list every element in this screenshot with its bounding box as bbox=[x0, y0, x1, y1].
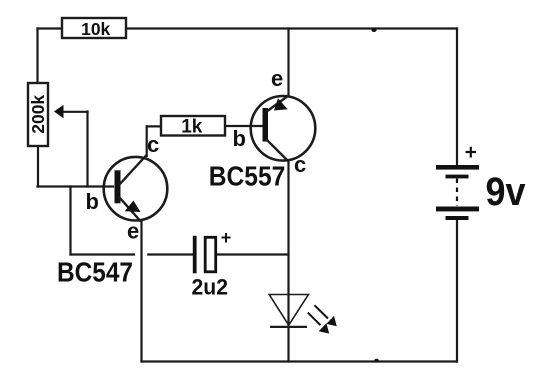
emitter arrow Q2 bbox=[274, 98, 288, 110]
dashed cell separator bbox=[456, 179, 458, 207]
resistor 1k bbox=[161, 116, 225, 137]
battery B1 9v bbox=[436, 147, 526, 220]
LED D1 bbox=[269, 295, 337, 334]
cell 1 long plate bbox=[436, 165, 479, 170]
emitter stroke Q1 bbox=[119, 197, 141, 222]
transistor Q1 BC547 bbox=[104, 155, 168, 222]
LED anode triangle bbox=[269, 295, 308, 326]
cell 2 long plate bbox=[436, 207, 479, 212]
wiper arrow bbox=[54, 105, 64, 118]
emitter arrow Q1 bbox=[125, 201, 141, 213]
svg-text:2u2: 2u2 bbox=[192, 275, 229, 300]
wire pot wiper drop bbox=[86, 112, 88, 187]
svg-text:e: e bbox=[271, 66, 283, 91]
negative plate bbox=[193, 236, 197, 273]
potentiometer 200k bbox=[28, 83, 64, 146]
svg-text:e: e bbox=[127, 219, 139, 244]
base bar Q1 bbox=[115, 170, 121, 203]
positive plate (hollow) bbox=[205, 237, 216, 271]
node junction dot top rail bbox=[371, 28, 376, 32]
emitter stroke Q2 bbox=[266, 96, 289, 113]
svg-text:9v: 9v bbox=[486, 170, 527, 214]
wire base node down drop bbox=[69, 187, 71, 255]
wire pot bottom lead bbox=[37, 146, 39, 187]
wire BC547 collector to 1k bbox=[147, 125, 161, 127]
node junction dot bottom rail bbox=[374, 359, 378, 363]
wire BC547 collector up bbox=[146, 126, 148, 156]
svg-text:1k: 1k bbox=[181, 116, 203, 137]
transistor Q2 BC557 bbox=[251, 96, 316, 162]
wire to capacitor left (gap hop over emitter wire) bbox=[71, 253, 135, 255]
wire pot wiper horizontal bbox=[62, 111, 88, 113]
base bar Q2 bbox=[263, 108, 269, 142]
svg-text:BC557: BC557 bbox=[209, 161, 285, 192]
svg-text:BC547: BC547 bbox=[57, 257, 133, 288]
LED cathode bar bbox=[270, 326, 307, 328]
svg-text:b: b bbox=[233, 126, 246, 151]
LED light arrow 2 bbox=[308, 313, 321, 326]
wire battery bottom lead bbox=[456, 218, 458, 362]
svg-text:b: b bbox=[86, 189, 99, 214]
svg-text:200k: 200k bbox=[28, 95, 48, 134]
collector stroke Q2 bbox=[266, 139, 289, 162]
collector stroke Q1 bbox=[119, 155, 147, 186]
wire battery top lead bbox=[456, 29, 458, 167]
wire BC547 emitter down to 0V rail bbox=[140, 222, 142, 362]
wire BC557 emitter up to rail bbox=[287, 29, 289, 96]
wire BC557 collector down through LED to rail bbox=[287, 162, 289, 362]
wire top rail bbox=[38, 27, 458, 29]
wire capacitor left lead bbox=[148, 253, 193, 255]
capacitor plus sign bbox=[222, 233, 231, 243]
wire left drop to pot bbox=[36, 29, 38, 84]
wire capacitor right lead bbox=[217, 253, 289, 255]
svg-text:10k: 10k bbox=[81, 19, 110, 39]
battery plus sign bbox=[466, 147, 477, 158]
wire bottom 0V rail bbox=[142, 360, 458, 362]
LED light arrow 1 bbox=[315, 305, 329, 318]
capacitor C1 2u2 bbox=[192, 233, 231, 300]
svg-text:c: c bbox=[294, 152, 306, 177]
cell 1 short plate bbox=[446, 175, 469, 179]
cell 2 short plate bbox=[446, 216, 469, 220]
svg-text:c: c bbox=[147, 132, 159, 157]
wire base node horizontal (pot bottom to BC547 base) bbox=[38, 185, 114, 187]
resistor 10k bbox=[62, 18, 126, 39]
wire 1k to BC557 base bbox=[225, 125, 263, 127]
